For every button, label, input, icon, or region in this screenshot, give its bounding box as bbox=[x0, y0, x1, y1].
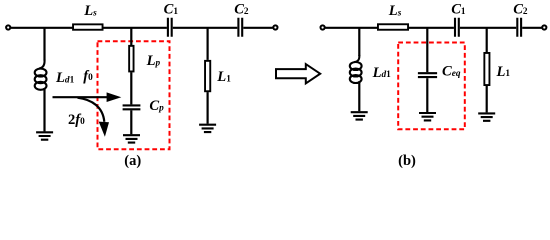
inductor Lp (a) bbox=[129, 46, 133, 72]
wire: L1 branch drop (b) bbox=[486, 28, 488, 52]
svg-text:Lp: Lp bbox=[146, 53, 161, 69]
arrow f0 horizontal bbox=[53, 92, 122, 102]
wire: C1 to C2 (a) bbox=[173, 27, 238, 29]
inductor Ls (b) bbox=[378, 24, 408, 30]
svg-text:C2: C2 bbox=[513, 2, 528, 18]
wire: Lp to Cp (a) bbox=[130, 72, 132, 104]
red dashed box (b) bbox=[398, 43, 465, 130]
wire: C1 to C2 (b) bbox=[460, 27, 516, 29]
capacitor C2 (b) bbox=[517, 18, 521, 37]
svg-text:Ceq: Ceq bbox=[442, 64, 461, 80]
inductor Ls (a) bbox=[73, 24, 103, 29]
wire: coil to ground (a) bbox=[43, 88, 45, 131]
svg-text:Cp: Cp bbox=[149, 98, 164, 114]
inductor Ld1 coil (a) bbox=[35, 60, 47, 90]
capacitor Ceq (b) bbox=[418, 73, 437, 77]
wire: Ld1 branch drop (b) bbox=[358, 28, 360, 56]
terminal port left (a) bbox=[6, 25, 10, 29]
svg-text:2f0: 2f0 bbox=[68, 112, 85, 128]
svg-text:Ls: Ls bbox=[388, 3, 402, 19]
wire: Lp branch drop (a) bbox=[130, 28, 132, 45]
svg-text:C2: C2 bbox=[234, 2, 249, 18]
wire: coil to ground (b) bbox=[358, 81, 360, 111]
arrow 2f0 curved bbox=[78, 98, 110, 137]
terminal port right (b) bbox=[542, 25, 546, 29]
wire: Cp to ground (a) bbox=[130, 110, 132, 134]
red dashed box (a) bbox=[98, 41, 170, 149]
ground under Ceq (b) bbox=[419, 113, 436, 120]
svg-text:C1: C1 bbox=[451, 2, 466, 18]
svg-text:(a): (a) bbox=[124, 153, 141, 169]
terminal port left (b) bbox=[321, 25, 325, 29]
ground under L1 (b) bbox=[478, 113, 495, 120]
capacitor C1 (b) bbox=[455, 18, 459, 37]
wire: L1 to ground (a) bbox=[207, 92, 209, 124]
svg-text:f0: f0 bbox=[83, 68, 93, 84]
capacitor C2 (a) bbox=[238, 18, 242, 37]
wire: C2 to right port (a) bbox=[243, 27, 272, 29]
svg-text:C1: C1 bbox=[164, 2, 179, 18]
wire: left port to C1 (b) bbox=[325, 27, 454, 29]
svg-text:Ld1: Ld1 bbox=[55, 70, 75, 86]
svg-text:L1: L1 bbox=[216, 69, 231, 85]
svg-text:Ld1: Ld1 bbox=[372, 65, 392, 81]
inductor L1 (a) bbox=[205, 61, 210, 91]
wire: Ld1 branch drop (a) bbox=[43, 28, 45, 61]
block arrow between circuits bbox=[276, 64, 320, 83]
svg-text:L1: L1 bbox=[496, 64, 511, 80]
ground under Cp (a) bbox=[123, 135, 140, 142]
wire: C2 to right port (b) bbox=[522, 27, 541, 29]
ground under L1 (a) bbox=[199, 125, 216, 132]
wire: Ceq branch drop (b) bbox=[426, 28, 428, 72]
svg-text:(b): (b) bbox=[398, 153, 416, 169]
terminal port right (a) bbox=[273, 25, 277, 29]
wire: Ceq to ground (b) bbox=[426, 78, 428, 112]
inductor L1 (b) bbox=[484, 53, 489, 85]
svg-text:Ls: Ls bbox=[83, 3, 97, 19]
capacitor C1 (a) bbox=[168, 18, 172, 37]
wire: left port to C1 (a) bbox=[11, 27, 167, 29]
capacitor Cp (a) bbox=[123, 105, 141, 109]
wire: L1 to ground (b) bbox=[486, 86, 488, 112]
ground under Ld1 (b) bbox=[351, 112, 368, 119]
wire: L1 branch drop (a) bbox=[207, 28, 209, 60]
inductor Ld1 coil (b) bbox=[350, 55, 362, 83]
ground under Ld1 (a) bbox=[36, 132, 53, 139]
